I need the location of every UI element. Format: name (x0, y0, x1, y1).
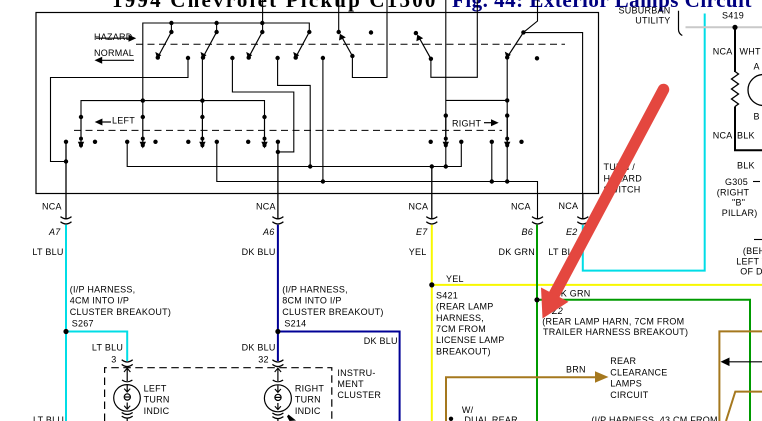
connector pin 3 (122, 360, 133, 367)
grey bus line with splice S419 (686, 26, 762, 28)
svg-text:(I/P HARNESS,: (I/P HARNESS, (70, 284, 136, 294)
svg-text:PILLAR): PILLAR) (722, 208, 758, 218)
wire: arm2 tip to left rail (201, 58, 203, 117)
right margin note (cut) (736, 240, 762, 277)
wire: E7 output (431, 167, 433, 220)
svg-text:TURN: TURN (144, 395, 170, 405)
svg-text:A: A (754, 62, 760, 72)
stationary contact dots right row (429, 140, 524, 144)
wire: E2 output (582, 194, 584, 220)
black arrowhead below right lamp (287, 415, 296, 421)
svg-text:(I/P HARNESS,: (I/P HARNESS, (282, 284, 348, 294)
svg-text:TURN: TURN (295, 395, 321, 405)
svg-text:INSTRU-: INSTRU- (337, 368, 375, 378)
switch arm SW3 (246, 32, 262, 60)
left row arm L1 (78, 115, 84, 149)
connector terminal A6 (272, 217, 283, 224)
instrument cluster dashed box (105, 368, 332, 421)
left rail (81, 101, 265, 117)
svg-text:NCA: NCA (42, 202, 62, 212)
wire: bus at y166 (127, 142, 461, 167)
svg-text:(REAR LAMP: (REAR LAMP (436, 302, 494, 312)
wire LT BLU branch to cluster pin 3 (66, 332, 127, 362)
note I/P harness 8cm (282, 284, 383, 317)
svg-text:1994 Chevrolet Pickup C1500: 1994 Chevrolet Pickup C1500 (112, 0, 438, 12)
svg-text:LT BLU: LT BLU (92, 342, 123, 352)
svg-text:CLEARANCE: CLEARANCE (610, 367, 667, 377)
label LEFT TURN INDIC (144, 383, 170, 415)
wire feed F5 from top (431, 0, 477, 77)
svg-text:NCA: NCA (256, 202, 276, 212)
bus junction dots (64, 150, 510, 184)
svg-text:NCA: NCA (559, 201, 579, 211)
red callout arrow (541, 90, 664, 319)
svg-text:CLUSTER BREAKOUT): CLUSTER BREAKOUT) (282, 307, 383, 317)
svg-text:TRAILER HARNESS BREAKOUT): TRAILER HARNESS BREAKOUT) (543, 327, 688, 337)
rail junction dots (141, 98, 510, 103)
wire BRN right side (719, 331, 762, 421)
svg-text:RIGHT: RIGHT (452, 118, 482, 128)
stationary contact dots hazard row (186, 30, 539, 60)
splice S267 (63, 329, 68, 334)
svg-text:DK BLU: DK BLU (364, 336, 398, 346)
wire feed F2 from top (338, 0, 340, 32)
svg-text:DK GRN: DK GRN (499, 247, 536, 257)
svg-text:(I/P HARNESS, 43 CM FROM: (I/P HARNESS, 43 CM FROM (591, 415, 717, 421)
note I/P harness 4cm (70, 284, 171, 317)
switch arm SW4 (293, 32, 309, 60)
label RIGHT TURN INDIC (295, 383, 325, 415)
svg-text:7CM FROM: 7CM FROM (436, 324, 486, 334)
HAZARD label with right arrow (94, 32, 136, 42)
wire DK BLU branch right (278, 332, 400, 421)
stationary contact dots left row (64, 140, 280, 144)
left row arm L4 (261, 115, 267, 149)
wire LT BLU from E2 (routes up right side) (583, 14, 705, 271)
svg-text:INDIC: INDIC (295, 406, 321, 416)
svg-text:LT BLU: LT BLU (33, 415, 64, 421)
TURN HAZARD SWITCH label (604, 162, 643, 195)
svg-text:NCA: NCA (713, 131, 733, 141)
svg-text:S419: S419 (722, 10, 744, 20)
BRN arrowhead (595, 371, 609, 382)
page title (cut off at top) (112, 0, 752, 12)
svg-text:HARNESS,: HARNESS, (436, 313, 484, 323)
svg-text:(BEHIND: (BEHIND (743, 246, 762, 256)
svg-text:(RIGHT: (RIGHT (717, 187, 750, 197)
svg-text:(REAR LAMP HARN, 7CM FROM: (REAR LAMP HARN, 7CM FROM (542, 316, 684, 326)
svg-text:B: B (754, 112, 760, 122)
svg-text:UTILITY: UTILITY (635, 15, 670, 25)
switch arm SW5 (arrow up) (339, 34, 352, 56)
wire: arm7 contact link (506, 59, 508, 182)
svg-text:YEL: YEL (446, 274, 464, 284)
svg-text:32: 32 (258, 355, 269, 365)
svg-text:HAZARD: HAZARD (94, 32, 133, 42)
continuation bracket (679, 11, 683, 36)
svg-text:BLK: BLK (737, 131, 755, 141)
svg-text:W/: W/ (462, 405, 474, 415)
svg-text:G305: G305 (725, 177, 748, 187)
pivot dots hazard row (169, 21, 525, 61)
resistor (front park lamp) (732, 72, 739, 107)
svg-text:OF DASH: OF DASH (740, 266, 762, 276)
left turn indicator lamp (114, 368, 141, 421)
connector terminal E7 (426, 217, 437, 224)
wire YEL from E7 (431, 225, 433, 421)
svg-text:S421: S421 (436, 291, 458, 301)
left row arm L3 (199, 115, 205, 149)
wire feed F6 from top (523, 0, 537, 32)
svg-text:LAMPS: LAMPS (610, 379, 642, 389)
wire DK BLU from A6 (277, 225, 279, 361)
wire DK GRN from B6 (536, 225, 538, 421)
svg-text:E2: E2 (566, 227, 578, 237)
wire WHT down from S419 (734, 27, 736, 72)
wire: hazard contact 277 to bus junction (278, 58, 311, 167)
label INSTRUMENT CLUSTER (337, 368, 381, 400)
switch arm SW2 (201, 32, 217, 60)
svg-text:REAR: REAR (610, 356, 636, 366)
wire: right rail link (446, 99, 507, 101)
svg-text:INDIC: INDIC (144, 406, 170, 416)
wire DK GRN horizontal run (537, 300, 750, 421)
label NCA BLK (713, 131, 755, 141)
svg-text:"B": "B" (732, 198, 745, 208)
left/right dashed travel line (74, 129, 502, 131)
wire BRN lower right diagonal (726, 392, 762, 421)
svg-text:YEL: YEL (409, 247, 427, 257)
svg-text:CLUSTER BREAKOUT): CLUSTER BREAKOUT) (70, 307, 171, 317)
note W/ DUAL REAR (449, 405, 518, 421)
svg-text:3: 3 (111, 355, 116, 365)
note Z2 rear lamp harn (542, 316, 688, 337)
RIGHT label with right arrow (452, 118, 499, 128)
svg-text:LEFT: LEFT (144, 383, 167, 393)
svg-text:LICENSE LAMP: LICENSE LAMP (436, 335, 505, 345)
wire LT BLU from A7 (65, 225, 67, 421)
splice Z2 (534, 297, 539, 302)
wire: contact 491 drop (491, 142, 493, 182)
wire: hazard contact 323 down to B6 bus (322, 58, 324, 182)
splice S419 dot (732, 25, 737, 30)
switch arm SW6 (arrow up) (416, 35, 431, 59)
LEFT label with left arrow (95, 115, 136, 125)
right row arm R2 (504, 113, 510, 148)
left row arm L2 (140, 115, 146, 149)
svg-text:DUAL REAR: DUAL REAR (464, 415, 518, 421)
connector pin 32 (272, 360, 283, 367)
svg-text:MENT: MENT (337, 379, 364, 389)
svg-text:NCA: NCA (511, 202, 531, 212)
svg-text:S214: S214 (284, 318, 306, 328)
right turn indicator lamp (264, 368, 291, 421)
wire: bus at y181 to B6 (217, 142, 538, 220)
wire: A7 output (65, 142, 67, 220)
svg-text:WHT: WHT (740, 47, 761, 57)
wire feed F3 from top (352, 0, 387, 78)
svg-text:B6: B6 (522, 227, 534, 237)
svg-text:BREAKOUT): BREAKOUT) (436, 346, 491, 356)
hazard dashed travel line (136, 43, 565, 45)
note S421 rear lamp harness (436, 291, 505, 357)
SUBURBAN UTILITY label (618, 6, 670, 26)
svg-text:LEFT TRIM: LEFT TRIM (736, 256, 762, 266)
svg-text:CLUSTER: CLUSTER (337, 390, 381, 400)
wire BRN rear clearance (446, 377, 596, 421)
rail stub pivot 1 (170, 23, 172, 32)
svg-text:LT BLU: LT BLU (32, 247, 63, 257)
right row arm R1 (443, 113, 449, 148)
wire BLK below resistor (735, 107, 762, 151)
wire: hazard contact 232 to A6 riser (232, 58, 293, 152)
switch arm SW7 (505, 32, 524, 59)
svg-text:LEFT: LEFT (112, 115, 135, 125)
svg-text:NCA: NCA (713, 47, 733, 57)
wire: hazard contact 188 to A7 riser (51, 58, 189, 162)
NORMAL label with left arrow (94, 48, 134, 64)
black arrow pointing left at brown wire (721, 358, 762, 367)
svg-text:DK BLU: DK BLU (242, 342, 276, 352)
svg-text:NCA: NCA (409, 202, 429, 212)
svg-text:CIRCUIT: CIRCUIT (610, 390, 648, 400)
splice S421 (429, 282, 434, 287)
svg-text:Fig. 44: Exterior Lamps Circui: Fig. 44: Exterior Lamps Circuit (452, 0, 752, 12)
svg-text:DK BLU: DK BLU (242, 247, 276, 257)
connector terminal B6 (532, 217, 543, 224)
label NCA WHT (713, 47, 761, 57)
wire: E2 feed from switch (523, 33, 582, 194)
front lamp bulb (clipped at edge) (748, 75, 762, 106)
wire feed F4 from top (445, 0, 447, 167)
label REAR CLEARANCE LAMPS CIRCUIT (610, 356, 667, 400)
svg-text:A7: A7 (48, 227, 61, 237)
svg-text:S267: S267 (72, 318, 94, 328)
svg-text:SUBURBAN: SUBURBAN (618, 6, 670, 16)
svg-text:A6: A6 (262, 227, 275, 237)
svg-text:E7: E7 (416, 227, 428, 237)
svg-text:BRN: BRN (566, 365, 586, 375)
ground G305 label (717, 177, 760, 218)
connector terminal A7 (61, 217, 72, 224)
svg-text:RIGHT: RIGHT (295, 383, 325, 393)
svg-text:8CM INTO I/P: 8CM INTO I/P (282, 296, 341, 306)
svg-text:BLK: BLK (737, 161, 755, 171)
wire: A6 output (277, 142, 279, 220)
rail stub pivot 2 (216, 23, 218, 32)
hazard bus rail (143, 23, 309, 117)
svg-text:NORMAL: NORMAL (94, 48, 134, 58)
wire YEL horizontal run (432, 284, 762, 286)
connector terminal E2 (577, 217, 588, 224)
svg-text:4CM INTO I/P: 4CM INTO I/P (70, 296, 129, 306)
wire feed F1 from top (262, 0, 264, 32)
splice S214 (275, 329, 280, 334)
turn/hazard switch box outline (36, 13, 599, 194)
switch arm SW1 (155, 32, 171, 60)
